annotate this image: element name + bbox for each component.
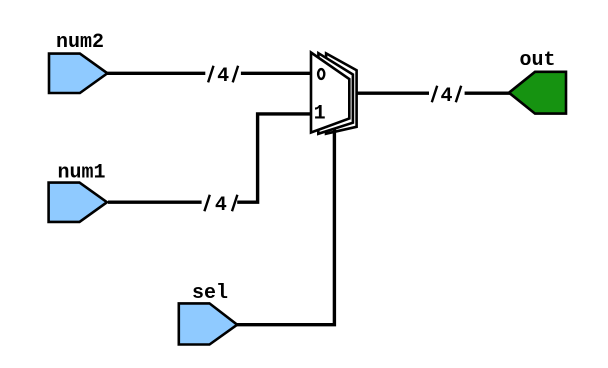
wire sel to mux select (bottom) [236,129,334,325]
mux U1 middle sheet [318,53,353,134]
svg-text:4: 4 [217,65,229,88]
svg-text:num1: num1 [57,161,105,184]
svg-text:4: 4 [215,194,227,217]
mux U1 back sheet [326,53,357,133]
mux U1 front sheet [311,53,349,133]
svg-text:sel: sel [192,282,228,305]
wire num1 to mux input 1 (with vertical jog) [108,114,312,202]
output port out [509,72,566,114]
wire num2 to mux input 0 [107,72,312,75]
svg-text:num2: num2 [56,31,104,54]
input port num2 [49,54,107,93]
svg-text:4: 4 [440,85,452,108]
svg-text:1: 1 [314,102,326,125]
svg-text:out: out [519,49,555,72]
input port sel [179,303,237,344]
mux input label 0 (plain oval zero) [318,69,324,79]
bus width label /4/ on out wire [429,83,465,108]
bus width label /4/ on num1 wire [202,192,238,217]
input port num1 [49,183,107,222]
wire mux output to out port [357,91,510,94]
bus width label /4/ on num2 wire [205,63,241,88]
